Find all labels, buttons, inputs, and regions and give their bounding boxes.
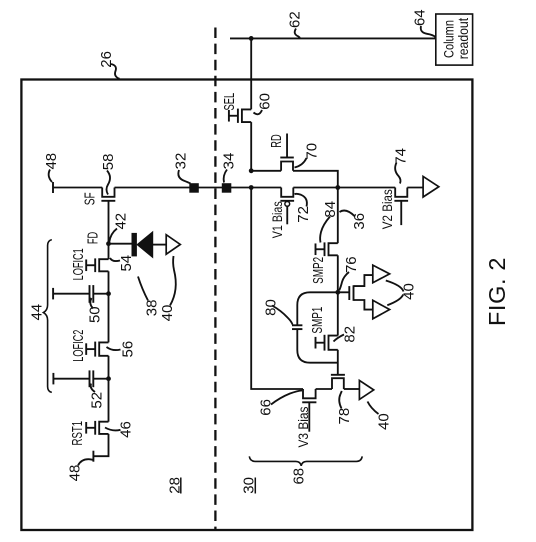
wire RD gate lead <box>286 134 288 158</box>
transistor follower 76 channel <box>353 285 355 301</box>
svg-text:SEL: SEL <box>221 93 238 111</box>
node junction SEL-column <box>249 36 254 41</box>
wire cap50 left lead <box>53 293 89 295</box>
transistor SMP1 82 <box>329 336 338 350</box>
wire V3 drain to main rail branch <box>251 188 303 390</box>
svg-text:72: 72 <box>295 206 312 223</box>
terminal tick 48 bottom <box>92 451 94 462</box>
svg-text:Column: Column <box>440 20 456 58</box>
transistor RD 70 <box>281 162 293 171</box>
arrow 40 lower of pair <box>373 300 390 319</box>
svg-text:84: 84 <box>322 201 339 218</box>
svg-text:SMP1: SMP1 <box>309 307 326 334</box>
wire node to SMP1 <box>337 292 339 335</box>
capacitor 52 plates <box>89 370 91 387</box>
wire 78 source right <box>344 388 360 390</box>
arrow 40 upper of pair <box>373 265 390 283</box>
svg-text:38: 38 <box>144 300 161 317</box>
wire FD to LOFIC1 <box>108 244 110 260</box>
transistor V2 Bias 74 <box>395 188 407 197</box>
svg-text:54: 54 <box>118 255 135 272</box>
pixel array boundary box 26 <box>21 80 472 531</box>
wire cap80 loop top <box>297 292 338 325</box>
capacitor 50 plates <box>89 285 91 303</box>
svg-text:RD: RD <box>268 134 285 148</box>
svg-text:74: 74 <box>393 148 410 165</box>
transistor follower 76 gate bar <box>348 286 350 300</box>
wire main rail mid <box>115 187 282 189</box>
svg-text:LOFIC1: LOFIC1 <box>70 248 87 280</box>
wire SMP2 to node <box>337 255 339 292</box>
node junction main rail at SEL branch <box>249 185 254 190</box>
svg-text:58: 58 <box>100 154 117 171</box>
svg-text:76: 76 <box>343 256 360 273</box>
wire FD to photodiode <box>109 243 132 245</box>
arrow output (V2 follower) 40 <box>423 176 439 197</box>
svg-text:V2 Bias: V2 Bias <box>379 189 395 229</box>
svg-text:66: 66 <box>258 399 275 416</box>
transistor source-follower 78 gate <box>331 374 345 376</box>
transistor V1 Bias 72 (PMOS bubble) <box>281 188 293 197</box>
transistor RST1 46 <box>99 422 108 434</box>
dashed boundary line between region 28 and 30 <box>214 28 216 530</box>
wire SMP1 to loop join <box>337 350 339 375</box>
transistor V3 Bias 66 <box>303 389 316 398</box>
brace 44 over LOFIC caps <box>43 240 51 393</box>
svg-text:32: 32 <box>173 153 190 170</box>
wire SEL source down <box>250 122 252 171</box>
svg-text:50: 50 <box>87 306 104 323</box>
wire SF gate / FD line upper <box>108 201 110 244</box>
wire cap50 node to LOFIC2 <box>108 294 110 343</box>
node 34 sampling point <box>222 183 232 193</box>
wire cap52 node to RST1 <box>108 379 110 422</box>
wire V3 gate lead <box>308 402 310 431</box>
transistor SMP2 76 <box>329 243 338 255</box>
wire cap80 loop bottom <box>297 329 338 363</box>
wire 76 drain up <box>354 275 373 286</box>
node 32 sampling point <box>189 183 199 193</box>
svg-text:FIG. 2: FIG. 2 <box>484 258 510 327</box>
svg-text:48: 48 <box>67 465 84 482</box>
svg-text:70: 70 <box>304 143 321 160</box>
wire cap50 right lead <box>93 293 108 295</box>
wire RD branch to main rail <box>293 171 338 188</box>
wire main rail left <box>53 187 102 189</box>
wire to output arrow 74 <box>407 187 423 189</box>
svg-text:LOFIC2: LOFIC2 <box>70 330 87 362</box>
svg-text:40: 40 <box>159 305 176 322</box>
svg-text:42: 42 <box>112 213 129 230</box>
wire LOFIC2 to cap52 node <box>108 356 110 379</box>
svg-text:78: 78 <box>336 408 353 425</box>
brace 68 under V3 bias stage <box>249 456 362 466</box>
svg-text:34: 34 <box>221 153 238 170</box>
bubble on V1 gate <box>285 202 290 207</box>
terminal tick cap50 <box>52 288 54 300</box>
terminal tick cap52 <box>52 373 54 385</box>
svg-text:52: 52 <box>89 392 106 409</box>
box Column readout 64 <box>436 14 473 65</box>
svg-text:40: 40 <box>376 413 393 430</box>
wire main rail right <box>293 187 395 189</box>
transistor 78 channel <box>332 378 344 389</box>
wire LOFIC1 to cap50 node <box>108 271 110 293</box>
node capacitor 50 tap <box>106 291 111 296</box>
wire RST1 source down <box>93 434 108 456</box>
capacitor 80 plates <box>292 324 302 326</box>
wire column line 62 <box>230 37 435 39</box>
wire V1 gate lead <box>286 206 288 224</box>
node junction main rail at 36 branch <box>335 185 340 190</box>
photodiode 38 anode triangle <box>137 232 153 258</box>
svg-text:60: 60 <box>257 93 274 110</box>
svg-text:62: 62 <box>287 11 304 28</box>
svg-text:56: 56 <box>120 341 137 358</box>
node capacitor 52 tap <box>106 376 111 381</box>
svg-text:48: 48 <box>43 153 60 170</box>
svg-text:RST1: RST1 <box>69 421 86 446</box>
photodiode cathode bar <box>132 233 137 257</box>
wire 76 source down <box>354 300 373 310</box>
svg-text:68: 68 <box>291 468 308 485</box>
node FD 42 <box>106 241 111 246</box>
transistor LOFIC1 54 <box>99 259 108 271</box>
svg-text:SF: SF <box>82 192 99 205</box>
terminal tick 48 top <box>52 182 54 193</box>
wire cap52 right lead <box>93 378 108 380</box>
wire SEL drain from column line <box>250 38 252 109</box>
arrow 40 at photodiode <box>166 235 180 255</box>
wire follower 76 gate lead <box>338 291 350 293</box>
transistor LOFIC2 56 <box>99 342 108 355</box>
svg-text:SMP2: SMP2 <box>310 257 327 284</box>
node SMP junction <box>335 290 340 295</box>
wire photodiode to arrow <box>153 244 167 246</box>
svg-text:44: 44 <box>29 304 46 321</box>
svg-text:readout: readout <box>455 18 471 59</box>
svg-text:V1 Bias: V1 Bias <box>269 201 285 238</box>
wire cap52 left lead <box>53 378 89 380</box>
wire 78 drain to V3 transistor <box>316 388 332 390</box>
transistor SF 58 <box>102 188 114 197</box>
wire RD branch upper <box>251 170 281 172</box>
svg-text:V3 Bias: V3 Bias <box>295 407 311 448</box>
arrow 40 at follower 78 <box>359 380 373 399</box>
node junction at RD branch <box>249 168 254 173</box>
svg-text:82: 82 <box>342 326 359 343</box>
transistor SEL 60 <box>242 109 251 122</box>
wire 36 branch upper <box>337 188 339 244</box>
svg-text:64: 64 <box>412 9 429 26</box>
svg-text:FD: FD <box>85 232 102 244</box>
wire V2 gate lead <box>400 201 402 225</box>
